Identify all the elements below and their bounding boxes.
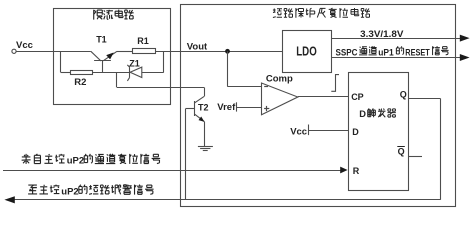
svg-text:Q: Q bbox=[398, 147, 405, 157]
svg-text:Vref: Vref bbox=[217, 102, 236, 113]
svg-text:D: D bbox=[359, 109, 366, 119]
svg-text:CP: CP bbox=[351, 92, 364, 102]
svg-text:RESET: RESET bbox=[405, 47, 430, 57]
svg-text:Z1: Z1 bbox=[129, 58, 140, 68]
svg-text:Vout: Vout bbox=[187, 41, 208, 52]
svg-text:uP2: uP2 bbox=[67, 155, 84, 166]
svg-text:T2: T2 bbox=[198, 103, 209, 113]
svg-text:Q: Q bbox=[400, 90, 407, 100]
svg-text:Comp: Comp bbox=[266, 73, 293, 84]
svg-text:D: D bbox=[352, 127, 359, 137]
svg-text:R: R bbox=[353, 166, 360, 176]
svg-text:Vcc: Vcc bbox=[16, 40, 33, 51]
svg-text:uP1: uP1 bbox=[378, 47, 394, 57]
svg-text:R2: R2 bbox=[74, 77, 86, 88]
svg-text:LDO: LDO bbox=[296, 44, 317, 59]
svg-text:R1: R1 bbox=[137, 36, 149, 46]
svg-text:SSPC: SSPC bbox=[336, 47, 359, 57]
svg-text:3.3V/1.8V: 3.3V/1.8V bbox=[360, 29, 404, 39]
svg-text:T1: T1 bbox=[96, 34, 107, 44]
svg-text:uP2: uP2 bbox=[61, 187, 78, 198]
svg-text:Vcc: Vcc bbox=[290, 126, 307, 137]
